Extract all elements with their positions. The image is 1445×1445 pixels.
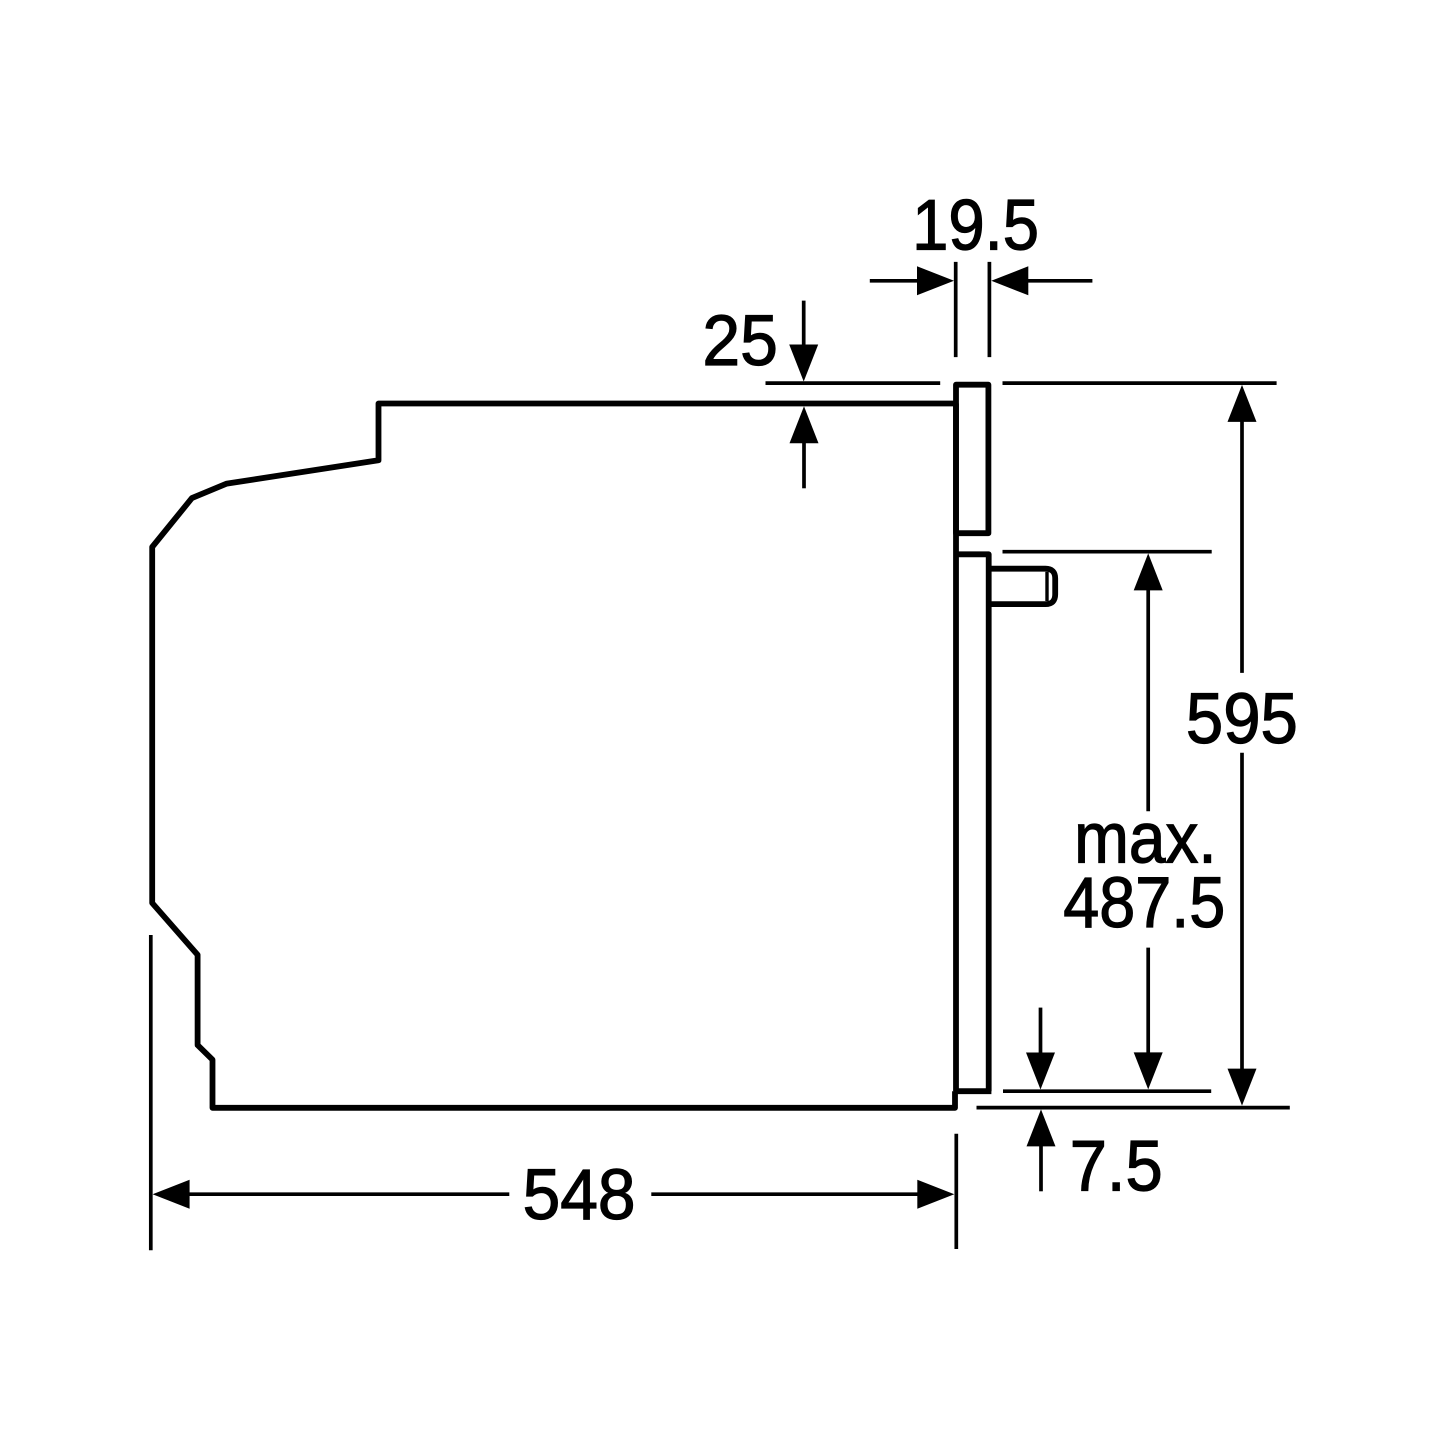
- svg-text:7.5: 7.5: [1070, 1128, 1163, 1207]
- svg-text:548: 548: [523, 1156, 636, 1235]
- svg-text:19.5: 19.5: [912, 187, 1039, 266]
- svg-text:487.5: 487.5: [1063, 864, 1225, 943]
- svg-text:595: 595: [1186, 680, 1298, 759]
- svg-text:25: 25: [702, 302, 778, 381]
